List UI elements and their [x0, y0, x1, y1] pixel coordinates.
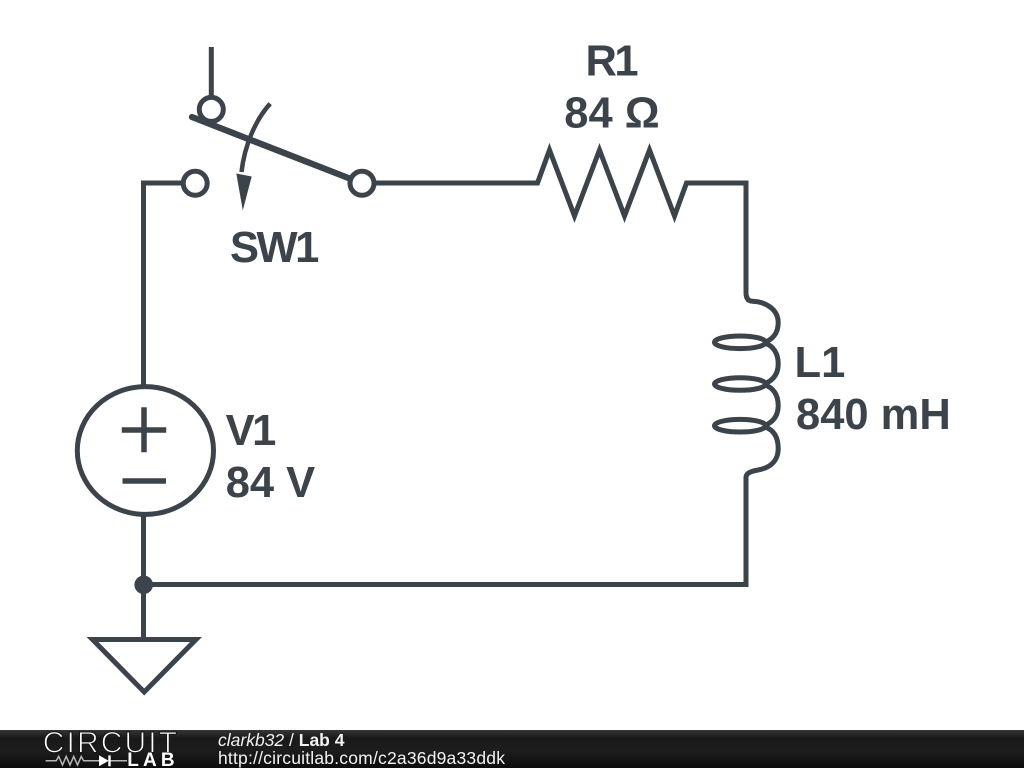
svg-text:R1: R1	[586, 38, 638, 86]
svg-text:84 Ω: 84 Ω	[564, 90, 659, 138]
svg-text:V1: V1	[226, 407, 276, 455]
svg-text:SW1: SW1	[230, 224, 318, 272]
svg-text:LAB: LAB	[127, 750, 179, 768]
svg-text:L1: L1	[795, 339, 846, 387]
svg-text:840 mH: 840 mH	[796, 391, 951, 439]
svg-text:84 V: 84 V	[226, 459, 316, 507]
